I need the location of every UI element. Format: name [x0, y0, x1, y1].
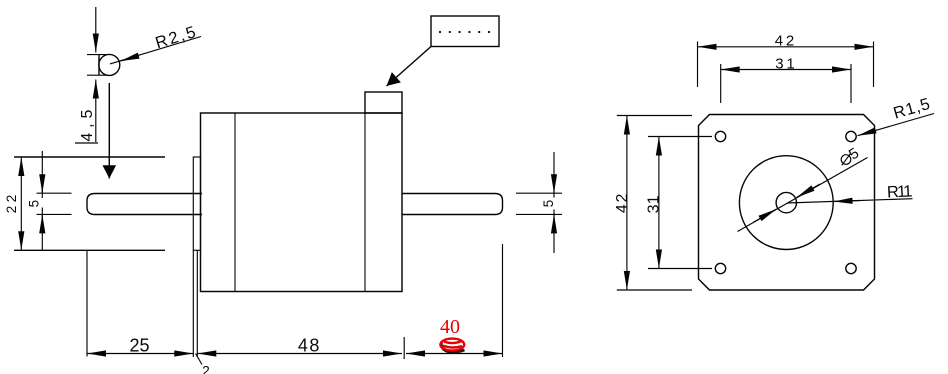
svg-text:40: 40	[440, 316, 460, 338]
detail circle shaft end	[99, 54, 120, 75]
svg-text:4,5: 4,5	[79, 110, 96, 142]
dimension 48	[197, 353, 402, 355]
dimension 31 top	[721, 69, 851, 71]
svg-text:R1,5: R1,5	[891, 95, 932, 123]
shaft left	[87, 194, 202, 215]
dimension 40	[406, 353, 503, 355]
dim 5 right lower arrow	[553, 214, 555, 233]
shaft circle	[776, 192, 796, 212]
dim 5 left lower line	[41, 208, 43, 251]
dim 5 right upper line	[553, 152, 555, 198]
dim 5 right stub bottom	[516, 213, 562, 215]
shaft right	[402, 194, 503, 215]
svg-text:2: 2	[202, 364, 210, 374]
detail flat tangent line	[98, 55, 100, 76]
ext 31 left top	[648, 136, 712, 138]
ext 42 top right	[873, 42, 875, 88]
svg-text:5: 5	[27, 200, 42, 208]
motor body	[201, 113, 403, 292]
R11 arrowhead	[834, 201, 861, 202]
leader diameter 5	[738, 158, 868, 232]
dimension 22	[20, 157, 22, 250]
ext 42 left bottom	[617, 289, 692, 291]
erased mark under scribble	[441, 343, 464, 353]
svg-text:31: 31	[646, 195, 663, 213]
dim 5 left upper arrow	[41, 174, 43, 193]
leader 2	[196, 354, 203, 365]
diameter 5 arrow lower	[753, 209, 777, 223]
dim 5 left stub bottom	[37, 213, 72, 215]
dim 5 right upper arrow	[553, 174, 555, 193]
detail pointer arrow	[108, 83, 110, 179]
svg-text:22: 22	[4, 195, 19, 214]
dim 5 left stub top	[37, 192, 72, 194]
leader R11	[787, 199, 913, 203]
dimension 4,5 lower segment	[95, 80, 97, 143]
faceplate	[699, 115, 875, 291]
svg-text:42: 42	[614, 194, 631, 214]
leader R2,5	[110, 37, 201, 64]
pilot circle R11	[739, 156, 833, 250]
body inner line right	[364, 113, 366, 292]
ext 31 top right	[850, 64, 852, 103]
mounting hole top-right	[846, 131, 856, 141]
terminal dots	[439, 31, 490, 33]
svg-text:25: 25	[130, 336, 150, 356]
dim 5 right stub top	[516, 192, 562, 194]
detail tick bottom	[87, 74, 107, 76]
extension line flange front	[192, 250, 194, 357]
dimension 42 left	[626, 116, 628, 291]
svg-text:5: 5	[541, 200, 556, 208]
leader R1,5	[858, 114, 935, 136]
ext 31 left bottom	[648, 268, 712, 270]
dimension 4,5 upper segment	[95, 7, 97, 53]
ext 42 top left	[697, 42, 699, 88]
terminal leader arrow	[387, 47, 432, 87]
wire terminal box	[431, 16, 499, 47]
panel extension line bottom	[14, 249, 165, 251]
extension line shaft left tip	[86, 250, 88, 356]
svg-text:R2,5: R2,5	[153, 23, 197, 52]
label 4,5 underline	[75, 142, 98, 144]
extension line shaft tip	[502, 244, 504, 357]
ext 42 left top	[617, 115, 692, 117]
mounting hole bottom-right	[846, 263, 856, 273]
ext 31 top left	[720, 64, 722, 103]
dimension 31 left	[658, 137, 660, 269]
mounting hole top-left	[715, 131, 725, 141]
dim 5 left lower arrow	[41, 214, 43, 233]
dim 5 left upper line	[41, 151, 43, 198]
svg-text:5: 5	[846, 145, 862, 164]
mounting hole bottom-left	[715, 263, 725, 273]
dim 5 right lower line	[553, 210, 555, 254]
svg-text:R11: R11	[887, 182, 913, 201]
panel extension line top	[14, 156, 165, 158]
extension line shaft base	[403, 337, 405, 359]
extension line body left	[196, 250, 198, 357]
red scribble	[440, 339, 464, 351]
svg-text:48: 48	[298, 336, 320, 356]
dimension 25	[87, 353, 193, 355]
diameter 5 arrow upper	[797, 184, 821, 198]
dimension 42 top	[698, 46, 874, 48]
body inner line left	[234, 113, 236, 292]
label diameter5	[841, 145, 862, 166]
flange	[193, 157, 200, 250]
connector block	[365, 92, 402, 113]
detail tick top	[87, 54, 107, 56]
